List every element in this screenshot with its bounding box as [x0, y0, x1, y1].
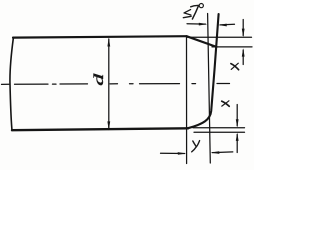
extension line at bottom edge level (x bottom) — [193, 127, 245, 129]
label x (bottom dimension) — [222, 101, 230, 106]
x top dimension arrows — [242, 20, 244, 36]
arrowhead angle left (points right) — [199, 23, 208, 26]
arrowhead d bottom — [107, 121, 110, 130]
extension line at burr level (x bottom) — [194, 131, 245, 133]
arrowhead x bottom upper (points down) — [236, 119, 239, 127]
arrowhead x bottom lower (points up) — [236, 133, 239, 141]
arrowhead angle right (points left) — [218, 24, 227, 27]
angle dimension left arrow — [187, 23, 206, 25]
shaft top edge — [13, 36, 187, 37]
angle dimension right arrow — [220, 23, 234, 26]
shaft break line (left wavy edge) — [10, 38, 13, 131]
y dimension left arrow — [161, 152, 185, 154]
oblique end face (with extension above outline) — [188, 14, 219, 128]
label y (bottom dimension) — [193, 141, 197, 147]
extension line at top edge level (x top) — [187, 36, 252, 38]
shaft bottom edge — [12, 128, 188, 130]
arrowhead y left (points right) — [178, 152, 187, 155]
svg-text:d: d — [92, 74, 107, 86]
top chamfer of cut end — [187, 36, 217, 47]
label angle: degree sign — [199, 4, 203, 8]
vertical reference extension line (right, angle + y dim) — [208, 14, 211, 164]
x bottom dimension arrows — [236, 105, 238, 126]
extension line at chamfer vertex level (x top) — [212, 46, 252, 48]
y dimension right arrow — [212, 151, 233, 154]
arrowhead d top — [107, 38, 110, 47]
vertical extension line from top corner (left leg of y dim) — [186, 37, 188, 164]
label angle: digit 7 — [191, 5, 199, 6]
dimension line d (vertical) — [108, 39, 110, 130]
arrowhead x top lower (points up) — [242, 48, 245, 56]
arrowhead x top upper (points down) — [242, 29, 245, 38]
arrowhead y right (points left) — [211, 151, 220, 154]
label angle: less-equal sign — [184, 10, 191, 15]
centerline (dash-dot axis) — [2, 83, 230, 86]
label x (top dimension) — [231, 64, 239, 70]
